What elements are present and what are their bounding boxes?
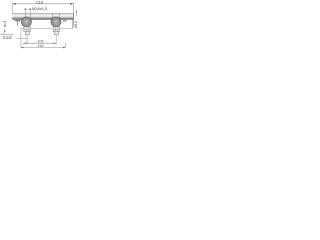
svg-text:G1/2: G1/2 xyxy=(3,35,13,40)
svg-text:150: 150 xyxy=(37,44,43,48)
two dots near right of bar bottom xyxy=(63,20,64,21)
G1/2 shelf line xyxy=(1,33,14,35)
svg-text:M28x1,5: M28x1,5 xyxy=(32,6,48,11)
left outlet box xyxy=(24,27,30,35)
left end vertical xyxy=(20,29,22,48)
extension line right of 216 xyxy=(73,3,75,27)
line above dim1 left xyxy=(17,38,28,40)
right outlet centerline extension xyxy=(55,35,57,44)
right outlet box xyxy=(53,27,59,35)
small tap stem xyxy=(17,21,19,26)
left tap symbol xyxy=(3,21,7,23)
svg-text:216: 216 xyxy=(36,0,43,4)
bar right end edge xyxy=(72,13,74,19)
svg-text:Ø18: Ø18 xyxy=(74,21,78,28)
left knurled nut xyxy=(22,17,32,27)
right knurled nut xyxy=(51,17,61,27)
dimension 216 arrows xyxy=(13,3,16,5)
G1/2 leader arrow xyxy=(4,29,5,31)
right end vertical xyxy=(72,20,74,29)
dim1 line 105 xyxy=(23,42,57,44)
chrome bar body xyxy=(12,13,73,19)
left valve top cap stub xyxy=(25,10,27,13)
right diameter dim line xyxy=(76,10,78,16)
left outlet centerline extension xyxy=(26,35,28,44)
dim2 right extension xyxy=(65,43,67,48)
extension line left of 216 xyxy=(12,3,14,15)
cross rail line under bar xyxy=(21,28,73,30)
left union nut edge lines on bar xyxy=(25,13,27,19)
right union nut edge lines on bar xyxy=(51,13,53,19)
small tap below bar left: T-handle xyxy=(14,20,20,22)
dimension 216 line xyxy=(13,3,74,5)
dim2 line 150 xyxy=(21,47,66,49)
bar top edge xyxy=(12,12,73,14)
